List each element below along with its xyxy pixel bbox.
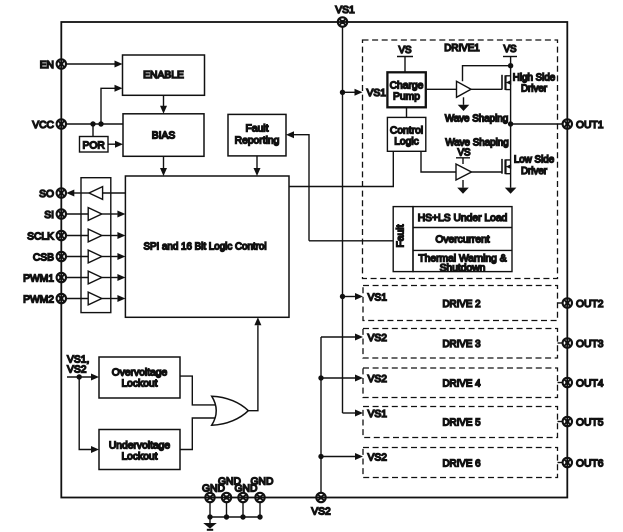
DRIVE 6 dashed block xyxy=(363,448,558,478)
block Fault Reporting xyxy=(228,114,286,155)
wire fault feedback into Fault Reporting xyxy=(286,131,309,241)
wire SPI to SO buffer xyxy=(103,192,126,194)
wire GND bus xyxy=(210,516,260,518)
wire CSB pin to buffer xyxy=(66,256,88,258)
svg-text:Overvoltage: Overvoltage xyxy=(112,368,168,379)
svg-text:SCLK: SCLK xyxy=(27,231,54,242)
svg-text:SO: SO xyxy=(39,189,54,200)
wire GND2 stub xyxy=(226,502,228,517)
wire Overvoltage Lockout to OR gate xyxy=(180,376,215,405)
svg-text:POR: POR xyxy=(83,140,105,151)
DRIVE 3 dashed block xyxy=(363,329,558,359)
wire VCC tap to ENABLE xyxy=(101,85,123,124)
svg-text:OUT1: OUT1 xyxy=(576,120,604,131)
wire high-side buffer to gate xyxy=(471,88,502,90)
wire VS1 to DRIVE 2 xyxy=(343,293,364,300)
wire VS2 to DRIVE 6 xyxy=(321,453,363,460)
junction OUT1 node xyxy=(508,121,513,126)
pin PWM1 xyxy=(23,273,66,285)
wire GND3 stub xyxy=(242,502,244,517)
buffer SI xyxy=(88,208,102,221)
label Low Side Driver xyxy=(514,155,555,177)
svg-text:DRIVE 2: DRIVE 2 xyxy=(442,299,480,310)
block Control Logic xyxy=(387,117,425,151)
buffer CSB xyxy=(88,250,102,263)
VS rail low-side drain to source ground xyxy=(510,124,512,188)
svg-text:VCC: VCC xyxy=(32,120,54,131)
svg-text:Fault: Fault xyxy=(246,123,269,134)
wire GND4 stub xyxy=(259,502,261,517)
svg-text:DRIVE 5: DRIVE 5 xyxy=(442,418,481,429)
svg-text:High Side: High Side xyxy=(513,72,556,83)
wire PWM1 pin to buffer xyxy=(66,277,88,279)
wire SPI to Control Logic xyxy=(289,151,393,186)
junction on VCC wire (ENABLE tap) xyxy=(98,121,103,126)
pin OUT2 xyxy=(558,298,604,310)
wire SI buffer to SPI xyxy=(102,211,126,218)
fault flag bar xyxy=(393,207,413,272)
transistor high-side MOSFET xyxy=(502,75,511,90)
svg-text:Wave Shaping: Wave Shaping xyxy=(445,138,508,149)
svg-text:VS: VS xyxy=(503,44,517,55)
wire VS1,VS2 to Undervoltage Lockout xyxy=(79,377,99,453)
outer IC boundary box xyxy=(61,22,567,498)
wire SI pin to buffer xyxy=(66,213,88,215)
svg-text:OUT3: OUT3 xyxy=(576,339,604,350)
svg-text:VS1: VS1 xyxy=(368,292,388,303)
wire buffer to wave shaping ground xyxy=(463,97,465,105)
wire Charge Pump to Control Logic xyxy=(406,107,408,117)
wire SO buffer to pin with arrow xyxy=(66,190,89,197)
svg-text:VS2: VS2 xyxy=(67,365,87,376)
pin GND 2 xyxy=(218,476,241,502)
svg-text:ENABLE: ENABLE xyxy=(143,70,184,81)
supply symbol VS (charge pump) xyxy=(397,45,413,72)
wire OUT1 node to pin xyxy=(511,123,563,125)
junction VS1 to DRIVE1 xyxy=(340,90,345,95)
OR gate U1 xyxy=(212,396,249,425)
svg-text:Reporting: Reporting xyxy=(235,136,280,147)
wire VS1 to DRIVE 5 xyxy=(343,410,364,417)
wire CSB buffer to SPI xyxy=(102,253,126,260)
wire Control Logic to low-side buffer xyxy=(421,151,456,172)
label High Side Driver xyxy=(513,72,556,94)
pin GND 3 xyxy=(235,484,258,502)
svg-text:VS1: VS1 xyxy=(335,5,355,16)
supply symbol VS (low side) xyxy=(456,147,471,164)
svg-text:Low Side: Low Side xyxy=(514,155,555,166)
svg-text:OUT4: OUT4 xyxy=(576,378,604,389)
buffer SCLK xyxy=(88,229,102,242)
pin OUT3 xyxy=(558,338,604,350)
wire VS2 to DRIVE 4 xyxy=(321,375,363,382)
pin SI xyxy=(44,209,66,221)
wire SCLK pin to buffer xyxy=(66,235,88,237)
input buffer column box xyxy=(81,178,111,313)
wire VS1 main vertical xyxy=(342,26,344,413)
junction VS2 to DRIVE 6 xyxy=(318,454,323,459)
svg-text:VS1: VS1 xyxy=(367,88,387,99)
pin GND 1 xyxy=(202,484,225,502)
wave shaping ground symbol (high side) xyxy=(458,105,470,111)
svg-text:VS2: VS2 xyxy=(368,374,388,385)
wire VS1,VS2 to Overvoltage Lockout xyxy=(67,374,99,381)
svg-text:Driver: Driver xyxy=(521,84,548,95)
svg-text:OUT6: OUT6 xyxy=(576,458,604,469)
wire buffer supply to VS rail xyxy=(463,66,511,82)
svg-text:DRIVE 3: DRIVE 3 xyxy=(442,339,481,350)
wire Undervoltage Lockout to OR gate xyxy=(180,418,215,450)
svg-text:OUT5: OUT5 xyxy=(576,417,604,428)
pin OUT4 xyxy=(558,378,604,390)
pin OUT1 xyxy=(563,119,604,131)
pin PWM2 xyxy=(23,294,66,306)
svg-text:EN: EN xyxy=(40,60,54,71)
svg-text:Overcurrent: Overcurrent xyxy=(435,235,489,246)
wire BIAS to SPI logic xyxy=(160,156,167,176)
pin VCC xyxy=(32,119,66,131)
wire Charge Pump to high-side buffer xyxy=(426,88,457,90)
wire EN to ENABLE xyxy=(66,61,123,68)
junction VS1 to DRIVE 2 xyxy=(340,294,345,299)
pin GND 4 xyxy=(251,476,274,502)
pin CSB xyxy=(33,252,66,263)
wire VS2 to DRIVE 3 xyxy=(321,334,363,341)
wire Fault Reporting to SPI logic xyxy=(254,156,261,176)
wire PWM2 buffer to SPI xyxy=(102,295,126,302)
svg-text:GND: GND xyxy=(251,476,274,487)
svg-text:Wave Shaping: Wave Shaping xyxy=(445,114,508,125)
wire low-side buffer to gate xyxy=(472,171,503,173)
DRIVE 5 dashed block xyxy=(363,407,558,438)
svg-text:DRIVE1: DRIVE1 xyxy=(444,43,479,54)
svg-text:Shutdown: Shutdown xyxy=(440,263,486,274)
svg-text:VS1: VS1 xyxy=(368,409,388,420)
svg-text:Lockout: Lockout xyxy=(121,378,157,389)
pin SCLK xyxy=(27,231,66,243)
svg-text:PWM1: PWM1 xyxy=(23,273,54,284)
svg-text:Control: Control xyxy=(390,125,423,136)
svg-text:PWM2: PWM2 xyxy=(23,294,54,305)
pin OUT6 xyxy=(558,458,604,470)
DRIVE1 dashed block xyxy=(363,40,558,279)
block Undervoltage Lockout xyxy=(99,430,180,470)
svg-text:Logic: Logic xyxy=(394,136,419,147)
svg-text:DRIVE 6: DRIVE 6 xyxy=(442,458,481,469)
wire ENABLE to BIAS xyxy=(160,95,167,114)
svg-text:Fault: Fault xyxy=(396,224,407,247)
wire VCC to BIAS xyxy=(66,123,123,125)
junction GND bus 4 xyxy=(257,514,262,519)
junction GND bus 1 xyxy=(207,514,212,519)
fault condition table xyxy=(413,207,512,275)
svg-text:CSB: CSB xyxy=(33,252,54,263)
junction on VCC wire (POR tap) xyxy=(90,121,95,126)
ground symbol (low-side source) xyxy=(505,188,517,194)
wire PWM1 buffer to SPI xyxy=(102,274,126,281)
junction VS2 to DRIVE 4 xyxy=(318,375,323,380)
svg-text:VS2: VS2 xyxy=(368,333,388,344)
buffer PWM2 xyxy=(88,292,102,305)
svg-text:VS2: VS2 xyxy=(368,452,388,463)
wire SCLK buffer to SPI xyxy=(102,232,126,239)
svg-text:Pump: Pump xyxy=(393,92,420,103)
wave shaping ground symbol (low side) xyxy=(457,188,469,194)
block BIAS xyxy=(123,114,204,157)
buffer PWM1 xyxy=(88,271,102,284)
supply symbol VS (high side) xyxy=(503,44,517,57)
pin EN xyxy=(40,59,66,71)
pin VS2 (bottom) xyxy=(311,493,331,518)
DRIVE 2 dashed block xyxy=(363,286,558,321)
svg-text:Driver: Driver xyxy=(521,166,548,177)
pin OUT5 xyxy=(558,417,604,429)
svg-text:VS: VS xyxy=(457,147,471,158)
buffer SO (output, points left) xyxy=(89,187,103,200)
block Overvoltage Lockout xyxy=(99,357,180,398)
junction buffer supply on VS rail xyxy=(508,63,513,68)
svg-text:Charge: Charge xyxy=(390,81,424,92)
block Charge Pump xyxy=(387,72,425,107)
junction GND bus 2 xyxy=(224,514,229,519)
VS rail to high-side drain xyxy=(510,57,512,125)
pin SO xyxy=(39,188,66,200)
junction on lockout supply wire xyxy=(77,374,82,379)
block SPI and 16 Bit Logic Control xyxy=(125,176,289,317)
wire OR gate output to SPI logic xyxy=(248,317,261,410)
svg-text:Undervoltage: Undervoltage xyxy=(109,441,171,452)
wire low-side buffer to ground xyxy=(462,180,464,188)
svg-text:VS2: VS2 xyxy=(311,506,331,517)
pin VS1 (top) xyxy=(335,5,355,27)
svg-text:Lockout: Lockout xyxy=(121,451,157,462)
svg-text:SPI and 16 Bit Logic Control: SPI and 16 Bit Logic Control xyxy=(143,242,266,253)
junction GND bus 3 xyxy=(240,514,245,519)
transistor low-side MOSFET xyxy=(502,159,511,174)
wire fault bar tap xyxy=(309,240,393,242)
ground symbol xyxy=(203,517,217,530)
svg-text:OUT2: OUT2 xyxy=(576,299,604,310)
block POR xyxy=(80,137,109,153)
wire PWM2 pin to buffer xyxy=(66,298,88,300)
low-side gate buffer xyxy=(456,164,472,180)
block ENABLE xyxy=(123,55,205,95)
DRIVE 4 dashed block xyxy=(363,368,558,398)
wire VS1 to DRIVE1 xyxy=(343,89,363,96)
svg-text:VS: VS xyxy=(398,45,412,56)
high-side gate buffer xyxy=(457,81,472,97)
wire VCC tap down to POR xyxy=(92,124,94,137)
net label VS1,VS2 (lockout supply) xyxy=(67,354,89,375)
svg-text:SI: SI xyxy=(44,210,54,221)
wire GND1 stub xyxy=(209,502,211,517)
svg-text:DRIVE 4: DRIVE 4 xyxy=(442,378,481,389)
wire POR to BIAS xyxy=(108,141,123,148)
svg-text:HS+LS Under Load: HS+LS Under Load xyxy=(418,213,508,224)
wire VS2 main vertical xyxy=(320,337,322,493)
svg-text:BIAS: BIAS xyxy=(152,131,176,142)
